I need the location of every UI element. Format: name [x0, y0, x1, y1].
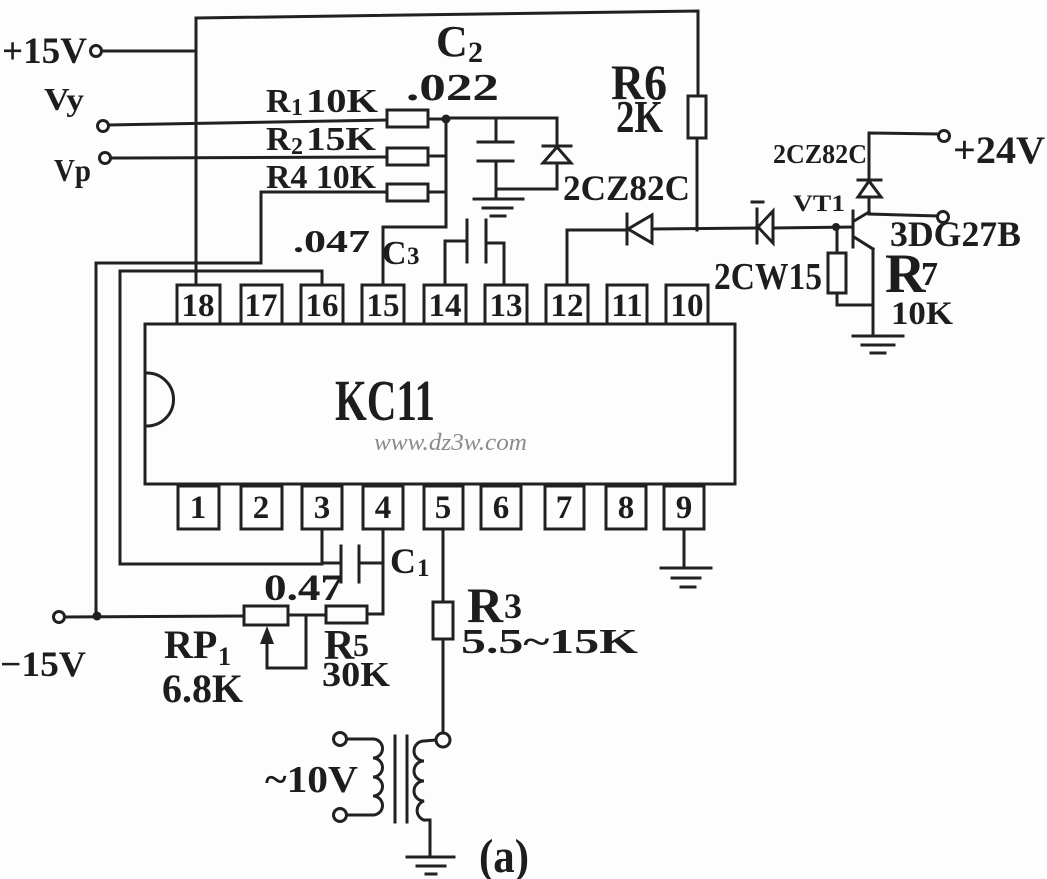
ground below C2 [474, 199, 523, 216]
svg-text:7: 7 [556, 490, 573, 526]
terminal +24V [939, 131, 950, 142]
pin 2 [241, 486, 282, 529]
capacitor C2 [478, 118, 557, 199]
svg-text:13: 13 [490, 288, 523, 324]
svg-text:2CZ82C: 2CZ82C [563, 168, 690, 208]
resistor R1 [387, 110, 428, 127]
svg-text:2CZ82C: 2CZ82C [773, 139, 867, 169]
wire transformer to ground [429, 820, 432, 857]
wire top bus from pin18 line to R6 [196, 11, 698, 96]
svg-text:16: 16 [306, 288, 339, 324]
pin 1 [178, 486, 219, 529]
svg-text:C: C [382, 235, 407, 272]
wire base to R7 [836, 227, 839, 253]
svg-text:10K: 10K [891, 296, 953, 332]
zener diode 2CW15 [752, 202, 773, 243]
pin 5 [424, 486, 463, 529]
pin 9 [664, 486, 704, 529]
pin 15 [362, 285, 404, 324]
svg-text:4: 4 [375, 490, 392, 526]
terminal collector output [938, 212, 949, 223]
diode 2CZ82C on trigger line [627, 214, 652, 244]
diode 2CZ82C beside C2 [543, 118, 571, 189]
svg-text:14: 14 [429, 288, 462, 324]
wire RP1 to R5 [288, 614, 326, 617]
diode 2CZ82C vertical [858, 180, 881, 197]
wire +15V vertical to pin 18 [195, 18, 198, 285]
wire pin5 down [442, 529, 445, 602]
svg-text:6: 6 [493, 490, 510, 526]
junction node A [442, 115, 451, 124]
junction node B [93, 612, 102, 621]
pin 7 [545, 486, 584, 529]
wire junction vertical down to pin15 [383, 119, 446, 285]
terminal -15V [54, 612, 65, 623]
wire +15V lead [102, 50, 196, 53]
svg-text:12: 12 [551, 288, 584, 324]
svg-text:VT1: VT1 [793, 191, 845, 216]
svg-text:R: R [266, 83, 291, 120]
svg-text:3: 3 [314, 490, 331, 526]
svg-text:17: 17 [245, 288, 278, 324]
svg-text:R4 10K: R4 10K [266, 159, 377, 196]
svg-text:8: 8 [618, 490, 635, 526]
svg-text:R: R [266, 121, 291, 158]
pin 17 [241, 285, 282, 324]
IC notch [147, 373, 174, 426]
wire pin9 to ground [683, 529, 686, 568]
wire pin3 down [321, 529, 324, 564]
capacitor C3 [445, 220, 504, 285]
svg-text:11: 11 [611, 288, 642, 324]
svg-text:15K: 15K [306, 121, 377, 158]
wire zener to base [773, 227, 853, 228]
wire pin16 long loop to C1 row [120, 271, 322, 564]
svg-text:9: 9 [676, 490, 693, 526]
junction node base [832, 223, 840, 231]
svg-text:Vp: Vp [54, 152, 91, 188]
svg-text:10K: 10K [306, 83, 379, 120]
transformer T1 [334, 733, 451, 823]
capacitor C1 [322, 546, 383, 582]
resistor R5 [326, 606, 367, 623]
wire emitter vertical [872, 249, 875, 336]
wire Vp to R2 [111, 157, 387, 158]
svg-text:C: C [390, 541, 416, 581]
resistor R4 [387, 184, 428, 201]
svg-text:6.8K: 6.8K [162, 666, 243, 711]
IC KC11 body [145, 324, 735, 484]
svg-text:1: 1 [291, 95, 303, 121]
resistor R2 [387, 148, 428, 165]
wire R4 right lead [428, 191, 446, 194]
pin 10 [666, 285, 708, 324]
wire R1 right lead [428, 118, 446, 121]
svg-text:5.5~15K: 5.5~15K [461, 622, 638, 661]
svg-text:3: 3 [407, 243, 420, 270]
pin 8 [606, 486, 646, 529]
pin 3 [302, 486, 342, 529]
RP1 wiper arrow [260, 615, 306, 668]
ground below emitter [853, 336, 903, 353]
wire -15V to RP1 [65, 616, 244, 617]
transistor VT1 [853, 211, 873, 249]
svg-text:0.47: 0.47 [264, 568, 343, 609]
pin 14 [424, 285, 466, 324]
ground below pin 9 [661, 568, 711, 587]
resistor R3 [433, 602, 453, 639]
svg-text:Vy: Vy [44, 81, 84, 117]
svg-text:30K: 30K [322, 655, 390, 694]
pin 6 [481, 486, 521, 529]
pin 18 [177, 285, 220, 324]
svg-text:+24V: +24V [953, 129, 1045, 172]
svg-text:7: 7 [921, 256, 938, 293]
wire diode to zener [652, 228, 757, 229]
wire pin4 down [382, 529, 385, 614]
wire Vy to R1 [109, 120, 387, 125]
pin 16 [301, 285, 343, 324]
svg-text:2CW15: 2CW15 [714, 256, 822, 298]
wire R3 to transformer [442, 639, 445, 733]
potentiometer RP1 [244, 606, 288, 625]
terminal Vp [100, 153, 111, 164]
svg-text:5: 5 [435, 490, 452, 526]
wire R6 down to trigger line [696, 138, 699, 230]
wire R5 to pin4 [367, 613, 383, 616]
svg-text:2: 2 [253, 490, 270, 526]
svg-text:.022: .022 [406, 67, 499, 109]
wire collector vertical [868, 197, 871, 212]
svg-text:18: 18 [182, 288, 215, 324]
wire node A to diode top [446, 117, 557, 120]
svg-text:2: 2 [468, 36, 483, 69]
svg-text:www.dz3w.com: www.dz3w.com [374, 430, 527, 456]
wire R2 right lead [428, 155, 446, 158]
ground below transformer [407, 857, 454, 874]
svg-text:~10V: ~10V [265, 759, 359, 801]
terminal Vy [98, 121, 109, 132]
resistor R6 [688, 96, 706, 138]
svg-text:1: 1 [190, 490, 207, 526]
pin 13 [485, 285, 527, 324]
pin 11 [607, 285, 647, 324]
svg-text:10: 10 [671, 288, 704, 324]
wire diode to +24V [869, 133, 938, 180]
pin 12 [546, 285, 588, 324]
svg-text:C: C [436, 17, 468, 66]
svg-text:2: 2 [291, 134, 303, 160]
svg-text:KC11: KC11 [335, 368, 435, 433]
svg-text:−15V: −15V [0, 644, 86, 684]
pin 4 [363, 486, 403, 529]
wire collector to output terminal [869, 214, 937, 216]
wire R7 to emitter [837, 293, 873, 305]
svg-text:15: 15 [367, 288, 400, 324]
svg-text:(a): (a) [479, 830, 529, 879]
svg-text:.047: .047 [293, 223, 370, 259]
svg-text:2K: 2K [616, 91, 663, 142]
wire pin12 to trigger line [567, 230, 627, 285]
wire R4 left loop to -15V [96, 192, 387, 616]
svg-text:1: 1 [417, 555, 430, 582]
svg-text:RP: RP [164, 622, 217, 667]
resistor R7 [828, 253, 846, 293]
svg-text:+15V: +15V [2, 31, 87, 72]
terminal +15V [91, 46, 102, 57]
svg-text:3: 3 [504, 586, 522, 626]
